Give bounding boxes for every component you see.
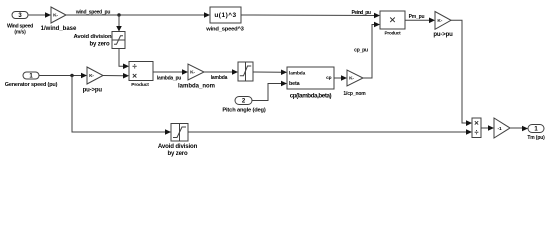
- svg-text:Tm (pu): Tm (pu): [527, 135, 545, 141]
- label x symbol in top product: [390, 18, 395, 23]
- label divide symbol in bottom product: [475, 131, 479, 133]
- svg-text:Product: Product: [131, 82, 149, 88]
- svg-text:lambda: lambda: [211, 75, 228, 81]
- svg-text:lambda_pu: lambda_pu: [157, 76, 181, 82]
- wire lambda: [204, 71, 234, 73]
- wire product to gain -1: [481, 127, 490, 129]
- wire Pm_pu: [405, 19, 431, 21]
- arrow into gain 1/wind_base: [45, 12, 51, 18]
- svg-text:cp_pu: cp_pu: [354, 48, 368, 54]
- wire inport3 to gain: [28, 14, 47, 16]
- svg-text:K-: K-: [437, 18, 442, 24]
- svg-text:-1: -1: [497, 126, 501, 132]
- inport 1 Generator speed: [23, 72, 39, 79]
- wire lambda to cp block: [253, 71, 283, 73]
- svg-text:K-: K-: [53, 13, 58, 19]
- label x symbol in bottom product: [475, 121, 478, 124]
- svg-text:Pitch angle (deg): Pitch angle (deg): [222, 107, 266, 113]
- saturation Avoid division by zero (bottom): [171, 124, 188, 142]
- arrow into gain pu->pu middle: [81, 73, 87, 79]
- arrow into product top input2 (cp_pu): [374, 22, 380, 28]
- arrow into saturation1 (down): [116, 26, 122, 32]
- wire pitch angle to beta input: [252, 84, 283, 101]
- gain -1: [494, 118, 510, 138]
- svg-text:K-: K-: [89, 73, 94, 79]
- node junction generator speed: [70, 74, 73, 77]
- gain pu->pu (top right): [435, 12, 451, 30]
- wire saturation2 to product divide input: [188, 131, 468, 133]
- saturation Avoid division by zero (vertical): [112, 32, 125, 49]
- svg-text:lambda: lambda: [289, 71, 306, 77]
- outport 1 Tm: [528, 125, 544, 133]
- arrow into gain lambda_nom: [182, 69, 188, 75]
- svg-text:1/cp_nom: 1/cp_nom: [343, 91, 366, 97]
- wire generator junction down to bottom saturation: [72, 76, 167, 133]
- saturation lambda_nom limiter: [238, 62, 253, 81]
- wire inport1 to gain: [39, 75, 83, 77]
- gain 1/cp_nom: [347, 70, 363, 86]
- svg-text:Pm_pu: Pm_pu: [409, 14, 425, 20]
- wire fcn to product Peind_pu: [241, 14, 376, 17]
- arrow into product3 divide input: [466, 129, 472, 135]
- wire gain -1 to outport: [510, 127, 524, 129]
- gain lambda_nom: [188, 64, 204, 80]
- svg-text:cp: cp: [326, 76, 332, 81]
- arrow into product middle divide input: [123, 63, 129, 69]
- svg-text:K-: K-: [190, 70, 195, 76]
- svg-text:Generator speed (pu): Generator speed (pu): [5, 82, 58, 88]
- svg-text:(m/s): (m/s): [14, 30, 26, 36]
- svg-text:pu->pu: pu->pu: [83, 87, 103, 93]
- product Product (middle divide): [129, 62, 153, 81]
- svg-text:beta: beta: [289, 81, 301, 87]
- label divide symbol in middle product: [133, 65, 137, 67]
- arrow into product middle x input: [123, 73, 129, 79]
- svg-text:u(1)^3: u(1)^3: [214, 11, 236, 19]
- arrow into saturation3: [232, 69, 238, 75]
- svg-text:wind_speed^3: wind_speed^3: [205, 27, 244, 33]
- product Product (bottom right): [472, 118, 481, 138]
- product operator glyphs drawn as vectors: [133, 18, 479, 133]
- arrow into cp block beta input: [281, 81, 287, 87]
- svg-text:pu->pu: pu->pu: [433, 32, 453, 38]
- subsystem cp(lambda,beta): [287, 67, 334, 89]
- wire pu->pu down to product (right side): [451, 20, 467, 123]
- wire gain to product x input: [103, 75, 125, 77]
- arrow into product3 x input: [466, 120, 472, 126]
- node junction wind_speed_pu: [117, 13, 120, 16]
- wire cp output to gain: [334, 77, 343, 79]
- svg-text:Peind_pu: Peind_pu: [352, 10, 371, 16]
- wire lambda_pu: [153, 71, 184, 73]
- arrow into gain pu->pu top: [429, 18, 435, 24]
- arrow into cp block lambda input: [281, 69, 287, 75]
- wire cp_pu up to top product: [363, 25, 376, 79]
- gain pu->pu (middle): [87, 67, 103, 84]
- gain 1/wind_base: [51, 7, 66, 23]
- svg-text:1/wind_base: 1/wind_base: [41, 26, 77, 32]
- label x symbol in middle product: [133, 74, 137, 78]
- inport 3 Wind speed: [12, 12, 28, 19]
- arrowheads: [45, 12, 528, 135]
- svg-text:Avoid division: Avoid division: [158, 143, 198, 150]
- arrow into outport Tm: [522, 126, 528, 132]
- product Product (top): [380, 11, 405, 29]
- dots of divide symbol middle product: [134, 64, 135, 65]
- arrow into fcn u(1)^3: [204, 12, 210, 18]
- arrow into product top input1: [374, 13, 380, 19]
- wire junction down to saturation: [118, 15, 120, 28]
- inport 2 Pitch angle: [235, 97, 252, 105]
- svg-text:wind_speed_pu: wind_speed_pu: [75, 10, 110, 16]
- svg-text:by zero: by zero: [168, 151, 188, 157]
- fcn u(1)^3: [210, 7, 241, 23]
- svg-text:cp(lambda,beta): cp(lambda,beta): [290, 93, 332, 100]
- svg-text:Avoid division: Avoid division: [74, 34, 112, 40]
- wire saturation1 to product divide input: [119, 49, 125, 67]
- wire wind_speed_pu: [66, 14, 206, 16]
- arrow into gain -1: [488, 125, 494, 131]
- arrow into saturation2 bottom: [165, 129, 171, 135]
- arrow into gain 1/cp_nom: [341, 75, 347, 81]
- svg-text:by zero: by zero: [90, 41, 110, 47]
- svg-text:Product: Product: [385, 31, 402, 36]
- svg-text:Wind speed: Wind speed: [7, 24, 33, 30]
- dots of divide symbol bottom product: [476, 130, 477, 131]
- svg-text:lambda_nom: lambda_nom: [178, 83, 215, 89]
- svg-text:K-: K-: [349, 76, 354, 82]
